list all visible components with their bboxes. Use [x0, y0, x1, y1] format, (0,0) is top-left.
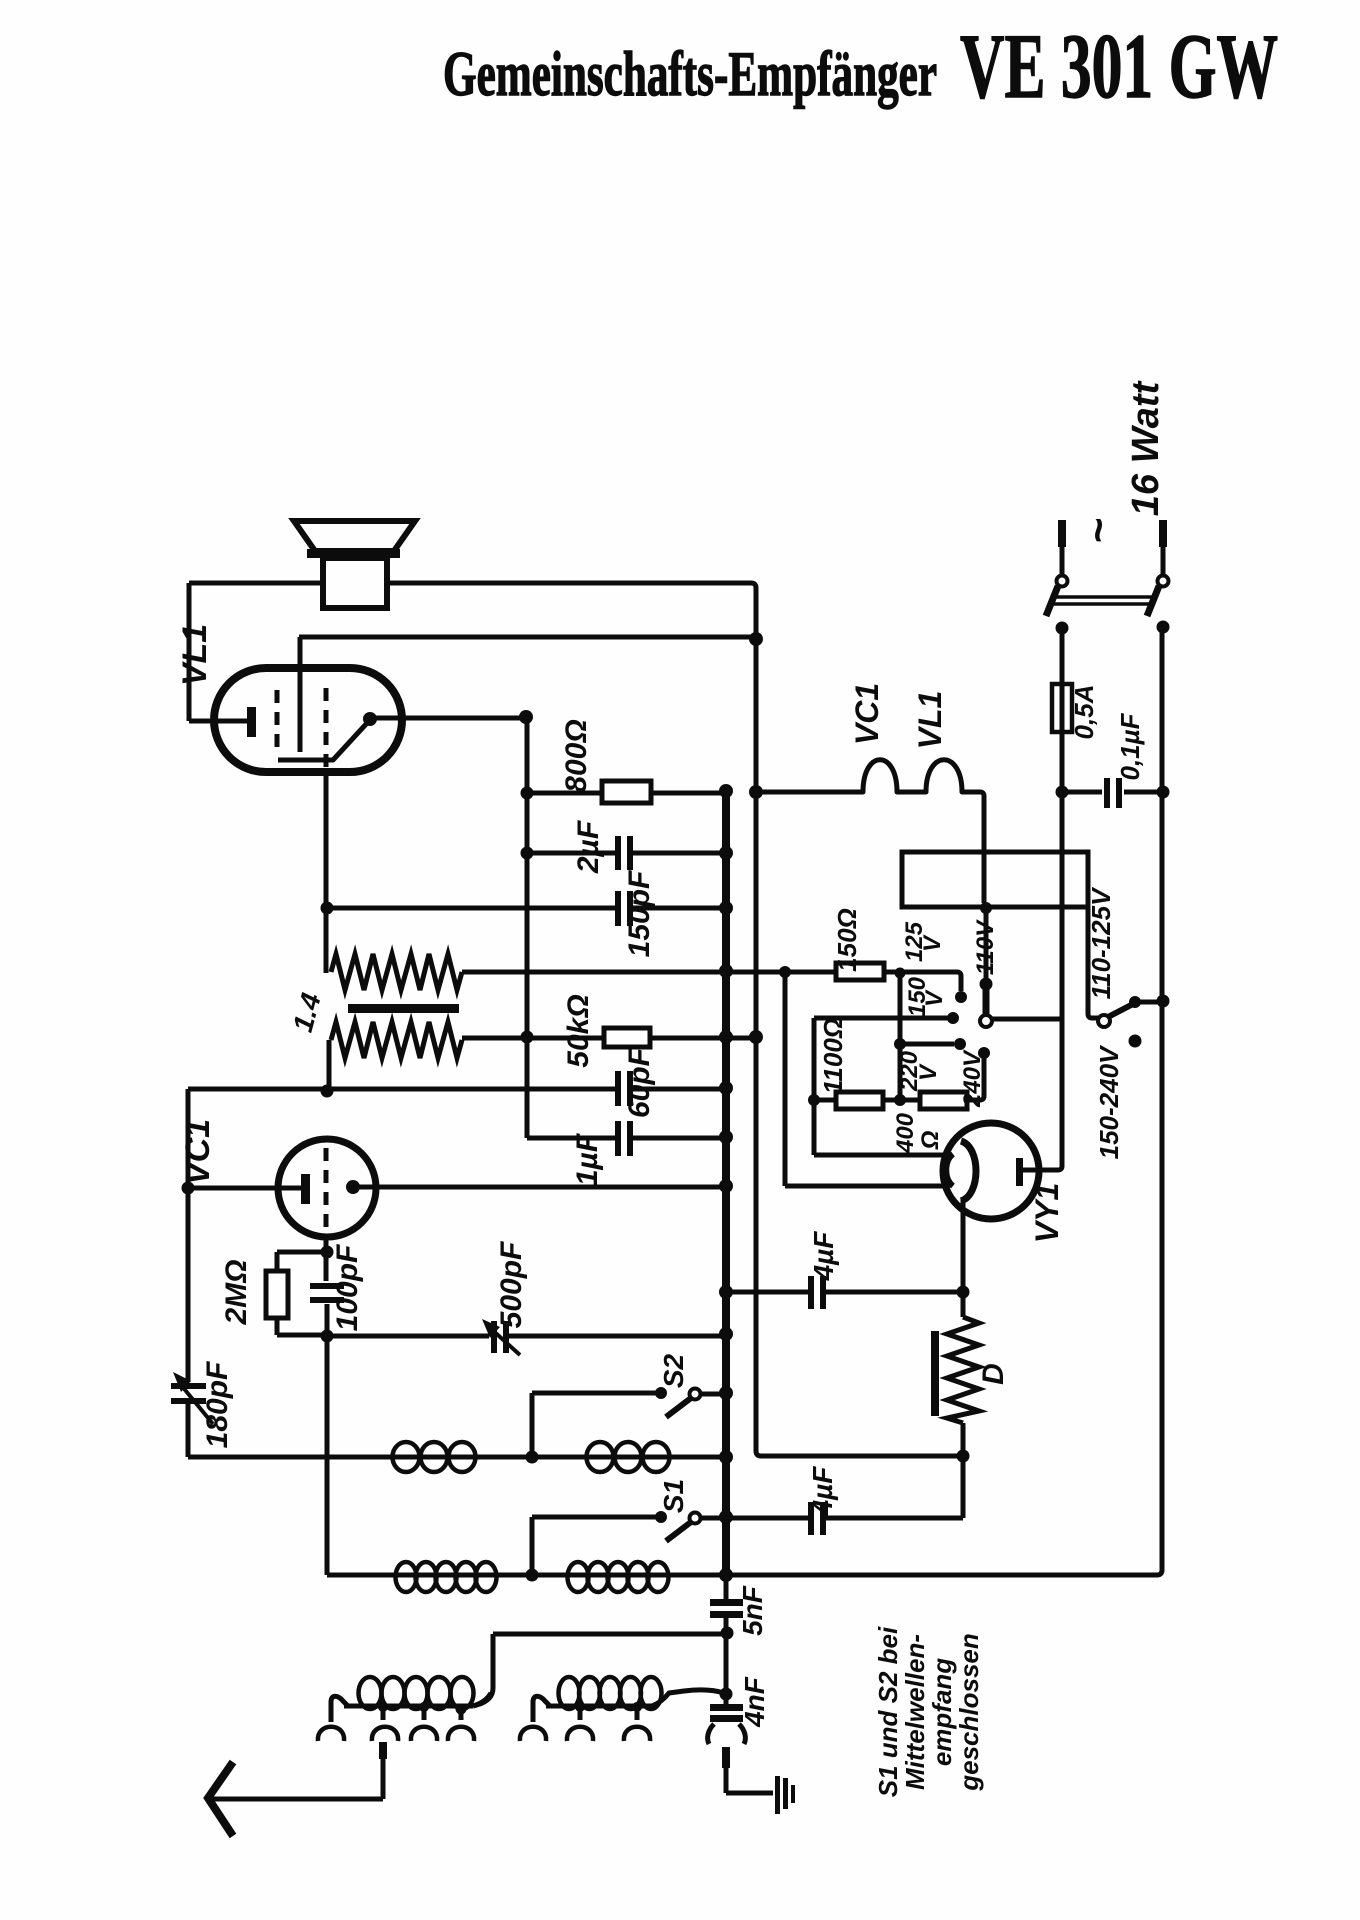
svg-text:800Ω: 800Ω — [560, 719, 593, 792]
svg-text:S1: S1 — [658, 1479, 689, 1513]
svg-text:Gemeinschafts-Empfänger: Gemeinschafts-Empfänger — [443, 38, 937, 109]
svg-text:500pF: 500pF — [495, 1241, 528, 1328]
svg-text:150-240V: 150-240V — [1094, 1044, 1124, 1159]
svg-text:180pF: 180pF — [201, 1361, 234, 1448]
svg-text:16 Watt: 16 Watt — [1125, 380, 1167, 516]
svg-text:4nF: 4nF — [739, 1676, 770, 1728]
svg-text:4µF: 4µF — [808, 1231, 839, 1282]
svg-text:VL1: VL1 — [176, 624, 214, 686]
svg-text:VL1: VL1 — [912, 691, 948, 750]
svg-text:110V: 110V — [972, 919, 999, 975]
svg-text:4µF: 4µF — [807, 1466, 838, 1517]
svg-text:VC1: VC1 — [849, 683, 885, 745]
svg-text:V: V — [919, 934, 946, 952]
svg-text:~: ~ — [1074, 518, 1123, 544]
svg-text:1100Ω: 1100Ω — [818, 1018, 848, 1094]
svg-text:VC1: VC1 — [179, 1119, 217, 1185]
svg-text:VY1: VY1 — [1029, 1183, 1065, 1243]
svg-text:S2: S2 — [658, 1353, 689, 1388]
svg-text:S1 und S2 bei: S1 und S2 bei — [873, 1626, 903, 1797]
svg-text:D: D — [977, 1363, 1010, 1385]
svg-text:0,5A: 0,5A — [1069, 685, 1099, 740]
svg-text:2µF: 2µF — [572, 820, 605, 874]
svg-text:50kΩ: 50kΩ — [562, 994, 595, 1067]
svg-text:100pF: 100pF — [331, 1244, 364, 1331]
svg-text:Mittelwellen-: Mittelwellen- — [900, 1634, 930, 1790]
svg-text:1.4: 1.4 — [287, 989, 327, 1035]
svg-text:2MΩ: 2MΩ — [220, 1259, 253, 1325]
svg-text:5nF: 5nF — [737, 1585, 768, 1636]
svg-text:V: V — [921, 989, 948, 1007]
svg-text:geschlossen: geschlossen — [954, 1633, 984, 1792]
svg-text:empfang: empfang — [927, 1658, 957, 1766]
svg-text:110-125V: 110-125V — [1086, 886, 1116, 999]
svg-text:V: V — [915, 1063, 942, 1081]
svg-text:150pF: 150pF — [623, 870, 656, 957]
svg-text:0,1µF: 0,1µF — [1115, 712, 1145, 780]
svg-text:60pF: 60pF — [623, 1047, 656, 1118]
svg-text:400: 400 — [892, 1112, 919, 1154]
svg-text:Ω: Ω — [917, 1130, 944, 1150]
svg-text:1µF: 1µF — [571, 1133, 604, 1186]
svg-text:VE 301 GW: VE 301 GW — [960, 15, 1278, 117]
svg-text:240V: 240V — [959, 1049, 986, 1108]
svg-text:150Ω: 150Ω — [832, 908, 862, 972]
